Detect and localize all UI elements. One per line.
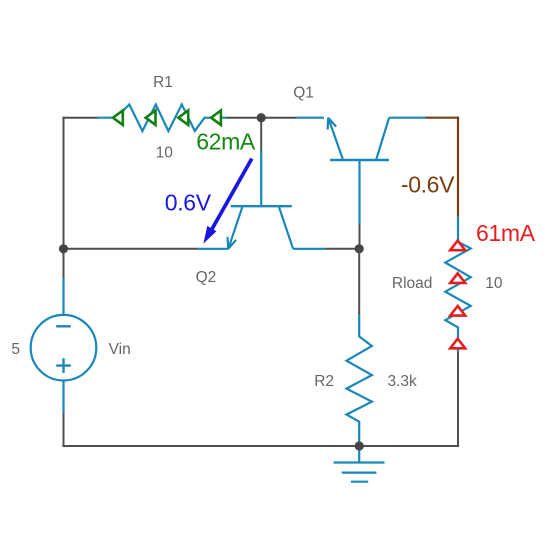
Vin plus sign (56, 358, 71, 373)
wire top-left horizontal (62, 117, 97, 119)
R1 current arrow 4 (211, 111, 221, 125)
svg-text:61mA: 61mA (476, 220, 536, 246)
Q2 emitter arrowhead (228, 237, 237, 249)
svg-text:Q2: Q2 (196, 269, 217, 286)
node C (59, 244, 68, 253)
Q1 emitter arrowhead (328, 118, 337, 130)
ground (334, 450, 385, 482)
Q1 collector diagonal (376, 118, 389, 159)
Rload current arrow 2 (450, 273, 465, 283)
voltage source Vin lead top (62, 278, 64, 315)
wire node A to Q1 emitter (261, 117, 296, 119)
right rail gray lower (457, 352, 459, 447)
transistor Q1 base bar (330, 159, 389, 161)
node A (257, 113, 266, 122)
Rload current arrow 3 (450, 306, 465, 316)
Q2 base lead cyan (260, 151, 262, 206)
svg-text:62mA: 62mA (196, 129, 256, 155)
Q2 collector diagonal (279, 207, 293, 249)
wire brown top right (426, 117, 460, 119)
voltage source Vin circle (31, 315, 97, 381)
node D (355, 441, 364, 450)
svg-text:10: 10 (156, 144, 174, 161)
R1 current arrow 1 (113, 111, 123, 125)
voltage source Vin lead bottom (62, 381, 64, 414)
svg-text:Q1: Q1 (293, 84, 314, 101)
svg-text:0.6V: 0.6V (165, 190, 212, 216)
left rail gray upper (63, 117, 65, 278)
wire R2 node B down (358, 249, 360, 315)
svg-text:Vin: Vin (109, 341, 131, 358)
svg-text:R1: R1 (153, 74, 173, 91)
resistor Rload (445, 217, 470, 352)
transistor Q2 base bar (231, 205, 292, 207)
svg-text:-0.6V: -0.6V (401, 172, 455, 198)
left rail gray lower (63, 413, 65, 447)
Q1 collector horizontal lead (389, 117, 425, 119)
wire from R1 to node A (226, 117, 261, 119)
Vin minus sign (56, 325, 71, 327)
resistor R1 (98, 105, 227, 132)
wire brown right rail (457, 117, 459, 217)
svg-text:5: 5 (11, 341, 20, 358)
node B (355, 244, 364, 253)
Q2 base lead gray stub (260, 118, 262, 151)
Q1 base lead cyan (358, 160, 360, 224)
Q2 emitter diagonal (228, 207, 242, 249)
svg-text:R2: R2 (314, 373, 334, 390)
Q2 collector horizontal lead (293, 248, 325, 250)
Q1 emitter horizontal lead (296, 117, 324, 119)
resistor R2 (347, 315, 372, 443)
Q2 emitter horizontal lead (198, 248, 229, 250)
Rload current arrow 4 (450, 339, 465, 349)
mid wire node C to Q2 emitter (64, 248, 198, 250)
R1 current arrow 2 (146, 111, 156, 125)
svg-text:10: 10 (485, 275, 503, 292)
Q1 emitter diagonal (328, 118, 343, 159)
Q1 base lead gray (359, 224, 361, 249)
wire Q2 collector to node B (326, 248, 360, 250)
svg-text:Rload: Rload (392, 275, 433, 292)
bottom rail (62, 445, 459, 447)
R1 current arrow 3 (178, 111, 188, 125)
annotation arrow voltage probe (211, 159, 252, 232)
Rload current arrow 1 (450, 241, 465, 251)
svg-text:3.3k: 3.3k (388, 373, 418, 390)
